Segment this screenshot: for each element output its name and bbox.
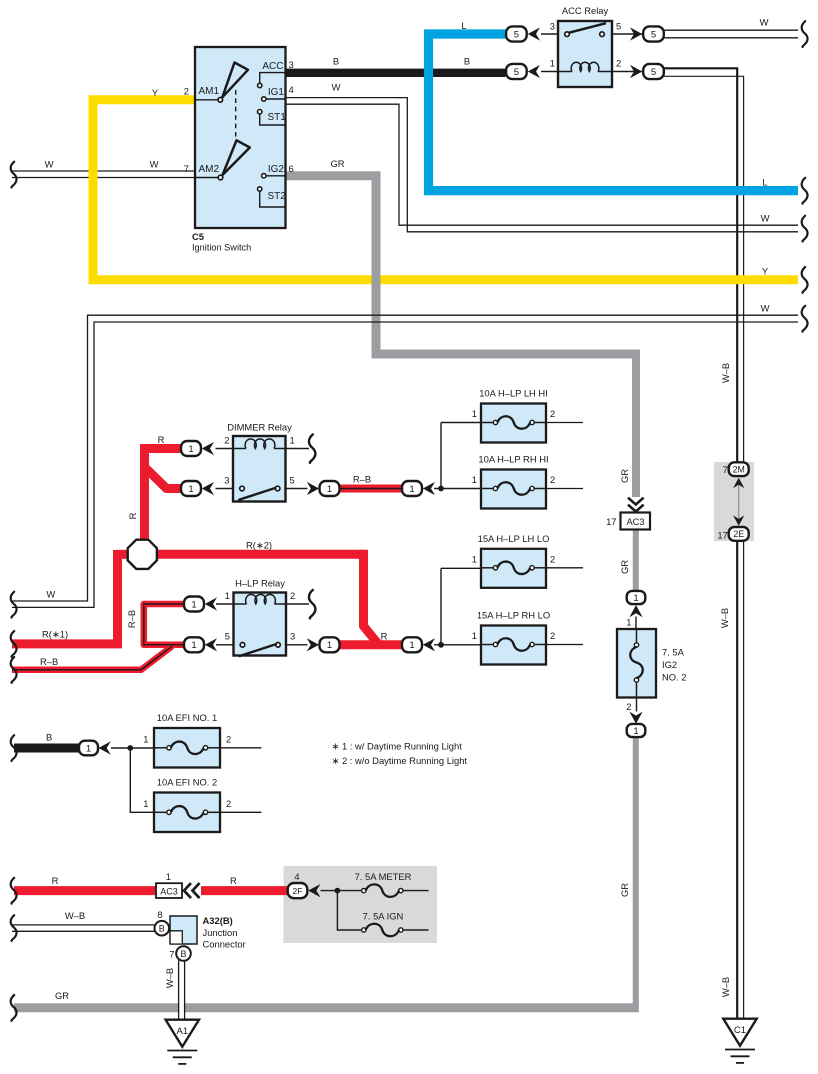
svg-text:W: W — [761, 213, 770, 224]
svg-text:C1: C1 — [734, 1025, 746, 1036]
svg-text:W: W — [332, 82, 341, 93]
svg-text:1: 1 — [472, 630, 477, 641]
svg-text:1: 1 — [188, 484, 193, 495]
svg-text:ACC Relay: ACC Relay — [562, 5, 609, 16]
svg-text:2: 2 — [626, 701, 631, 712]
svg-text:1: 1 — [86, 743, 91, 754]
svg-text:∗ 2 : w/o Daytime Running Ligh: ∗ 2 : w/o Daytime Running Light — [332, 755, 468, 766]
svg-text:3: 3 — [550, 21, 555, 32]
svg-text:R: R — [52, 875, 59, 886]
svg-text:5: 5 — [514, 67, 519, 78]
svg-text:1: 1 — [191, 640, 196, 651]
svg-text:R(∗2): R(∗2) — [246, 540, 272, 551]
svg-text:R–B: R–B — [40, 656, 58, 667]
svg-text:W–B: W–B — [720, 977, 731, 997]
svg-text:GR: GR — [619, 883, 630, 897]
svg-text:AC3: AC3 — [160, 886, 178, 896]
svg-text:L: L — [461, 20, 466, 31]
svg-text:4: 4 — [294, 871, 299, 882]
svg-text:Connector: Connector — [203, 939, 246, 950]
svg-text:2E: 2E — [733, 529, 744, 539]
svg-text:Junction: Junction — [203, 927, 238, 938]
svg-text:1: 1 — [626, 617, 631, 628]
svg-text:10A H–LP RH HI: 10A H–LP RH HI — [478, 454, 548, 465]
svg-text:W–B: W–B — [720, 363, 731, 383]
svg-text:5: 5 — [616, 21, 621, 32]
svg-text:2: 2 — [184, 86, 189, 97]
svg-text:2: 2 — [550, 408, 555, 419]
svg-text:2F: 2F — [293, 886, 303, 896]
svg-text:2: 2 — [550, 553, 555, 564]
svg-text:W–B: W–B — [164, 968, 175, 988]
svg-text:1: 1 — [409, 640, 414, 651]
svg-text:2: 2 — [226, 798, 231, 809]
svg-text:A1: A1 — [176, 1026, 188, 1037]
svg-text:1: 1 — [327, 640, 332, 651]
svg-text:8: 8 — [157, 909, 162, 920]
svg-text:ST1: ST1 — [268, 112, 287, 123]
svg-text:R: R — [158, 434, 165, 445]
svg-text:3: 3 — [290, 631, 295, 642]
svg-text:15A H–LP RH LO: 15A H–LP RH LO — [477, 610, 550, 621]
svg-text:B: B — [159, 924, 165, 934]
svg-text:1: 1 — [191, 599, 196, 610]
svg-text:1: 1 — [633, 593, 638, 604]
svg-text:Y: Y — [152, 87, 159, 98]
svg-text:2: 2 — [290, 590, 295, 601]
svg-text:2M: 2M — [733, 465, 745, 475]
svg-text:B: B — [46, 732, 52, 743]
svg-text:L: L — [762, 177, 767, 188]
svg-text:10A EFI NO. 1: 10A EFI NO. 1 — [157, 712, 217, 723]
svg-text:17: 17 — [717, 530, 727, 541]
svg-text:15A H–LP LH LO: 15A H–LP LH LO — [478, 533, 550, 544]
svg-text:5: 5 — [290, 475, 295, 486]
svg-text:R: R — [127, 512, 138, 519]
svg-text:IG1: IG1 — [268, 87, 285, 98]
svg-text:1: 1 — [225, 590, 230, 601]
svg-text:W: W — [150, 159, 159, 170]
svg-text:AM2: AM2 — [199, 164, 220, 175]
svg-text:5: 5 — [651, 67, 656, 78]
svg-text:4: 4 — [289, 84, 294, 95]
svg-text:NO. 2: NO. 2 — [662, 672, 687, 683]
svg-text:1: 1 — [327, 484, 332, 495]
svg-text:1: 1 — [633, 726, 638, 737]
svg-text:2: 2 — [226, 733, 231, 744]
svg-text:GR: GR — [619, 469, 630, 483]
svg-text:1: 1 — [550, 58, 555, 69]
svg-text:6: 6 — [289, 163, 294, 174]
svg-text:B: B — [333, 56, 339, 67]
svg-text:3: 3 — [224, 475, 229, 486]
svg-text:W: W — [761, 303, 770, 314]
svg-text:1: 1 — [290, 435, 295, 446]
svg-text:IG2: IG2 — [662, 659, 677, 670]
svg-text:7: 7 — [184, 163, 189, 174]
svg-text:1: 1 — [166, 871, 171, 882]
svg-text:A32(B): A32(B) — [203, 915, 233, 926]
svg-text:B: B — [180, 949, 186, 959]
svg-text:7. 5A METER: 7. 5A METER — [355, 871, 412, 882]
svg-text:1: 1 — [409, 484, 414, 495]
svg-text:R–B: R–B — [353, 474, 371, 485]
svg-text:Y: Y — [762, 266, 769, 277]
svg-text:W: W — [760, 17, 769, 28]
svg-text:10A EFI NO. 2: 10A EFI NO. 2 — [157, 777, 217, 788]
svg-text:2: 2 — [550, 474, 555, 485]
svg-text:ST2: ST2 — [268, 191, 287, 202]
svg-text:10A H–LP LH HI: 10A H–LP LH HI — [479, 388, 548, 399]
svg-text:H–LP Relay: H–LP Relay — [235, 578, 285, 589]
svg-text:1: 1 — [188, 444, 193, 455]
svg-text:ACC: ACC — [262, 61, 283, 72]
svg-text:2: 2 — [616, 58, 621, 69]
svg-text:W: W — [45, 159, 54, 170]
svg-text:GR: GR — [619, 560, 630, 574]
svg-text:R–B: R–B — [126, 610, 137, 628]
svg-text:1: 1 — [472, 474, 477, 485]
svg-text:2: 2 — [550, 630, 555, 641]
svg-text:R: R — [381, 631, 388, 642]
svg-text:W–B: W–B — [719, 608, 730, 628]
svg-text:5: 5 — [225, 631, 230, 642]
svg-text:IG2: IG2 — [268, 164, 285, 175]
svg-text:GR: GR — [55, 990, 69, 1001]
svg-text:W–B: W–B — [65, 910, 85, 921]
svg-text:R(∗1): R(∗1) — [42, 629, 68, 640]
svg-text:AC3: AC3 — [626, 517, 644, 527]
svg-text:R: R — [230, 875, 237, 886]
svg-text:B: B — [464, 56, 470, 67]
svg-text:5: 5 — [651, 29, 656, 40]
svg-text:C5: C5 — [192, 231, 204, 242]
svg-text:1: 1 — [143, 798, 148, 809]
svg-text:5: 5 — [514, 29, 519, 40]
svg-text:7: 7 — [723, 464, 728, 475]
svg-text:Ignition Switch: Ignition Switch — [192, 242, 251, 252]
svg-text:W: W — [46, 589, 55, 600]
svg-text:3: 3 — [289, 59, 294, 70]
svg-text:∗ 1 : w/ Daytime Running Light: ∗ 1 : w/ Daytime Running Light — [332, 741, 463, 752]
svg-text:7: 7 — [169, 949, 174, 960]
svg-text:1: 1 — [472, 408, 477, 419]
svg-text:1: 1 — [472, 553, 477, 564]
svg-text:DIMMER Relay: DIMMER Relay — [227, 422, 292, 433]
svg-text:17: 17 — [606, 516, 616, 527]
svg-text:7. 5A: 7. 5A — [662, 647, 685, 658]
svg-text:1: 1 — [143, 733, 148, 744]
svg-text:AM1: AM1 — [199, 86, 220, 97]
svg-text:7. 5A IGN: 7. 5A IGN — [363, 911, 404, 922]
svg-text:GR: GR — [330, 158, 344, 169]
svg-text:2: 2 — [224, 435, 229, 446]
